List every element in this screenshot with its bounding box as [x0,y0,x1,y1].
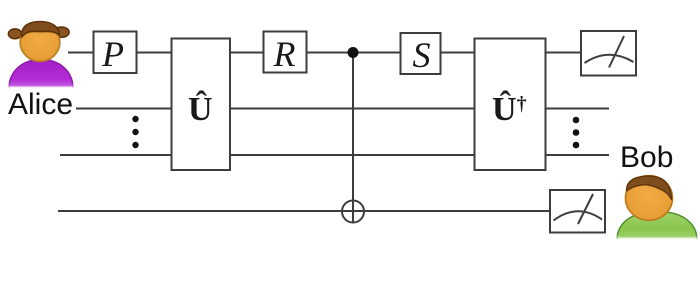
meter M2 (bottom measurement) [550,190,605,233]
Alice avatar [8,22,73,89]
wire q4 (bottom) [58,210,580,212]
Bob hair [627,176,672,200]
wire CNOT vertical [352,53,354,223]
svg-text:P: P [101,34,124,74]
svg-text:S: S [413,35,431,75]
CNOT target [342,201,364,223]
svg-text:R: R [273,34,296,74]
control dot [348,47,359,58]
Bob body [617,212,697,241]
svg-text:Bob: Bob [620,141,673,174]
Bob avatar [617,176,697,240]
Alice body [9,60,73,89]
wire q1 (top) [68,52,600,54]
wire q3 [60,154,609,156]
Alice face [20,23,60,61]
Alice left pigtail [8,29,21,39]
Alice hair [22,22,60,38]
wire q2 [76,108,609,110]
gate U2 (Uhat dagger) [475,39,546,171]
svg-text:Alice: Alice [8,88,73,121]
svg-text:Û: Û [188,90,213,128]
ellipsis dots right [573,117,580,149]
gate R [264,32,307,73]
meter M1 (top measurement) [581,31,636,76]
Bob head [626,176,673,221]
gate S [401,33,441,74]
Alice right pigtail [54,27,69,37]
ellipsis dots left [132,116,138,148]
gate U1 (Uhat) [172,39,231,171]
gate P [94,32,137,74]
